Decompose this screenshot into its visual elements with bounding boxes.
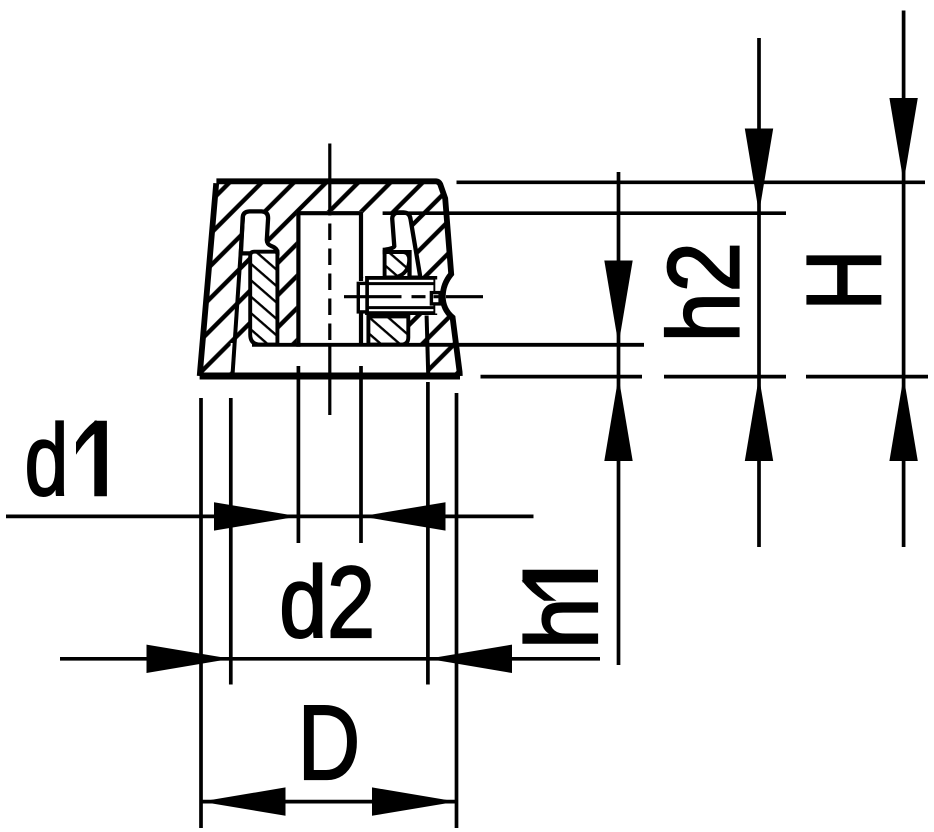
- extension line D left outer: [199, 398, 203, 828]
- h2 arrow up: [745, 377, 773, 461]
- svg-text:h: h: [507, 597, 619, 649]
- h1 arrow down: [604, 261, 632, 345]
- dimension line d1: [6, 515, 534, 519]
- D arrow right: [372, 787, 457, 815]
- set screw body: [367, 278, 435, 313]
- bore right wall lower: [359, 311, 363, 346]
- right bushing upper part: [385, 252, 410, 278]
- bore right wall upper: [359, 212, 363, 282]
- extension line D (knob bottom) segments: [481, 375, 929, 379]
- h2 arrow down: [745, 129, 773, 214]
- knob bottom face: [200, 373, 460, 380]
- set screw thread lines: [367, 284, 435, 308]
- svg-text:h2: h2: [648, 242, 760, 342]
- extension line d2 right: [426, 382, 430, 685]
- central bore (white): [296, 211, 363, 347]
- extension line A (knob top): [457, 180, 926, 184]
- label h1: [507, 571, 619, 650]
- H arrow down: [889, 98, 917, 182]
- extension line d1 right (bore): [359, 366, 363, 543]
- knob body (hatched cross-section): [200, 181, 460, 376]
- right spring finger: [385, 212, 421, 277]
- svg-text:d2: d2: [279, 547, 375, 659]
- dimension line h2: [757, 38, 761, 547]
- set screw axis centerline: [344, 295, 483, 298]
- d2 arrow left: [147, 645, 231, 673]
- dimension line h1: [617, 172, 621, 665]
- svg-text:d: d: [25, 405, 69, 517]
- left spring finger: [241, 211, 278, 253]
- right bushing lower part: [368, 316, 408, 344]
- knob outer outline: [200, 181, 460, 376]
- dimension line H: [902, 11, 906, 548]
- set screw dog point tip: [358, 283, 367, 312]
- dimension line D: [201, 800, 457, 804]
- extension line d2 left: [229, 398, 233, 685]
- bore top edge: [296, 211, 363, 215]
- svg-text:D: D: [298, 684, 360, 802]
- bottom recess (white): [231, 343, 430, 375]
- svg-text:H: H: [785, 249, 903, 310]
- D arrow left: [201, 787, 286, 815]
- bore bottom / extension line C: [252, 343, 644, 347]
- vertical centerline: [328, 144, 331, 216]
- d1 arrow left: [214, 502, 298, 530]
- d1 arrow right: [361, 502, 446, 530]
- right skirt wall (below screw): [427, 316, 429, 375]
- extension line B (bore top): [383, 211, 786, 215]
- h1 arrow up: [604, 377, 632, 461]
- hex socket: [431, 293, 440, 304]
- right finger pocket void (white): [363, 215, 395, 277]
- extension line D right outer: [455, 393, 459, 828]
- extension line d1 left (bore): [297, 366, 301, 543]
- d2 arrow right: [428, 645, 512, 673]
- H arrow up: [889, 377, 917, 461]
- bore left wall: [296, 211, 300, 347]
- white gap to notch: [435, 280, 442, 314]
- sliver below screw right of bore (white): [363, 313, 369, 346]
- dimension line d2: [60, 657, 600, 661]
- left knurled bushing: [250, 252, 277, 345]
- left cavity wall: [233, 215, 244, 374]
